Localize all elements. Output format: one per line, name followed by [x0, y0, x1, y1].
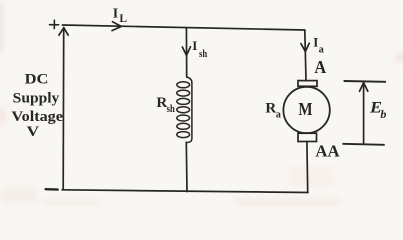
svg-text:sh: sh: [199, 49, 207, 60]
motor top brush: [298, 81, 317, 87]
label DC supply voltage block: [12, 71, 64, 141]
svg-text:A: A: [314, 57, 326, 77]
minus terminal: [46, 188, 58, 191]
svg-text:a: a: [276, 109, 281, 120]
arrow down on shunt branch: [182, 47, 190, 56]
svg-text:R: R: [265, 100, 276, 116]
wire left vertical: [62, 29, 65, 190]
svg-text:M: M: [298, 99, 313, 119]
wire armature branch vertical bottom: [306, 142, 309, 193]
svg-text:DC: DC: [25, 71, 49, 88]
motor armature circle U1: [283, 87, 329, 133]
arrow up at top of left supply wire: [59, 28, 68, 36]
plus terminal: [50, 20, 59, 28]
arrow right on top wire (line current): [112, 22, 121, 31]
arrow down on armature branch: [301, 43, 309, 51]
resistor Rsh shunt field coil: [177, 77, 192, 143]
svg-text:sh: sh: [167, 104, 175, 115]
motor bottom brush: [298, 133, 317, 141]
svg-text:a: a: [319, 44, 324, 55]
svg-text:AA: AA: [315, 141, 340, 160]
back-emf arrow up: [360, 83, 368, 144]
wire shunt branch vertical bottom: [185, 143, 188, 192]
wire shunt branch vertical top: [185, 28, 187, 77]
wire top horizontal: [62, 25, 304, 30]
svg-text:I: I: [113, 7, 118, 22]
svg-text:Supply: Supply: [13, 89, 60, 106]
svg-text:b: b: [380, 107, 386, 121]
back-emf top bar: [344, 80, 386, 83]
wire armature branch vertical top: [305, 30, 306, 81]
svg-text:I: I: [192, 38, 197, 53]
svg-text:L: L: [119, 13, 127, 25]
svg-text:I: I: [313, 35, 318, 50]
back-emf bottom bar: [342, 144, 384, 145]
wire bottom horizontal: [62, 190, 308, 193]
svg-text:V: V: [27, 123, 39, 140]
